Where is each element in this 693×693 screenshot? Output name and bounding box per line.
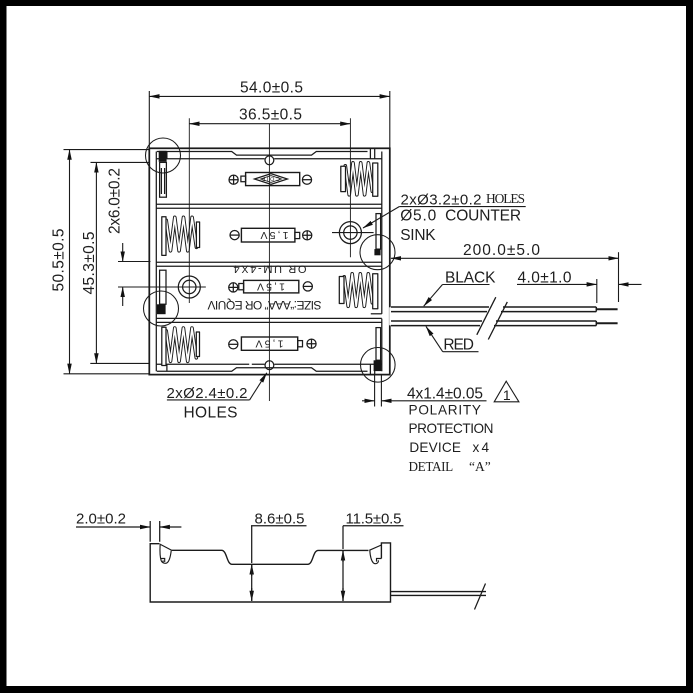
plate slot2 right <box>376 214 381 250</box>
leader BLACK <box>443 284 490 286</box>
svg-text:2x6.0±0.2: 2x6.0±0.2 <box>107 168 124 234</box>
countersink hole right crosshair <box>332 232 374 234</box>
countersink hole left inner <box>183 280 196 293</box>
BODY-OUTLINE <box>149 148 389 374</box>
svg-text:HOLES: HOLES <box>486 191 525 206</box>
bottom wall inner profile <box>157 368 368 372</box>
svg-text:50.5±0.5: 50.5±0.5 <box>51 229 68 292</box>
section wire <box>391 592 487 596</box>
CONTACT-PLATES <box>160 162 381 360</box>
svg-text:54.0±0.5: 54.0±0.5 <box>240 79 303 96</box>
spring slot4 free bar <box>196 332 199 357</box>
countersink hole right outer <box>339 222 361 244</box>
plate slot4 right <box>376 328 381 361</box>
svg-text:SINK: SINK <box>400 227 436 244</box>
wire break slash 1 <box>477 297 496 335</box>
countersink hole left crosshair <box>173 286 206 288</box>
svg-text:8.6±0.5: 8.6±0.5 <box>255 510 305 527</box>
battery B1 minus terminal <box>302 175 311 184</box>
svg-text:200.0±5.0: 200.0±5.0 <box>463 242 540 259</box>
spring slot1 right zigzag <box>345 163 372 195</box>
SECTION-VIEW <box>76 521 486 610</box>
body outer rectangle <box>149 148 389 374</box>
dim 2x6.0 extension lines <box>118 262 206 288</box>
divider slot3/4 <box>156 318 381 322</box>
spring slot1 wall bar <box>373 163 378 196</box>
detail circle A1 <box>146 138 181 173</box>
top wall inner profile <box>157 152 368 156</box>
svg-text:DEVICE: DEVICE <box>409 440 461 455</box>
svg-text:BLACK: BLACK <box>445 270 496 287</box>
dim 11.5 underline and line <box>343 526 404 549</box>
SPRINGS <box>162 163 378 366</box>
top center circle <box>265 156 274 165</box>
dim 4x1.4 extension lines <box>375 375 382 407</box>
battery B1 nub <box>241 176 246 182</box>
detail circle A2 <box>360 235 395 270</box>
svg-text:POLARITY: POLARITY <box>409 403 482 418</box>
plate slot3 left <box>160 270 166 304</box>
countersink hole left outer <box>178 276 200 298</box>
dim 200.0 extension line right <box>618 252 620 302</box>
bottom center circle <box>265 361 274 370</box>
dim 2x6.0 arrows <box>122 243 124 262</box>
battery B3 plus terminal <box>229 283 238 292</box>
BATTERIES <box>229 173 316 351</box>
svg-text:PROTECTION: PROTECTION <box>409 421 494 436</box>
section right clip <box>369 545 381 564</box>
svg-text:COUNTER: COUNTER <box>445 207 521 224</box>
polarity protection square slot1 left <box>159 151 167 162</box>
spring slot2 wall bar <box>162 217 166 256</box>
DIMENSIONS <box>64 91 642 407</box>
spring slot4 zigzag <box>166 328 196 361</box>
spring slot2 free bar <box>196 222 199 248</box>
wire break slash 2 <box>488 302 507 340</box>
battery B1 plus terminal <box>229 175 238 184</box>
right inner wall <box>381 152 383 372</box>
leader RED <box>443 351 479 353</box>
dim 45.3 extension lines <box>90 162 149 363</box>
bottom inner wall line <box>157 363 382 365</box>
dim 4.0 line right with arrow <box>619 283 642 285</box>
section outline <box>172 550 369 564</box>
svg-text:OR UM-4X4: OR UM-4X4 <box>234 263 307 275</box>
dim 8.6 underline and line <box>251 526 307 563</box>
svg-text:RED: RED <box>443 336 474 353</box>
polarity protection square slot3 left <box>157 304 166 314</box>
svg-text:SIZE:“AAA” OR EQUIV: SIZE:“AAA” OR EQUIV <box>208 298 322 312</box>
battery B4 outline <box>241 337 297 350</box>
red wire insulation <box>391 321 596 326</box>
battery B3 minus terminal <box>303 282 312 291</box>
detail circle A3 <box>144 291 179 326</box>
svg-text:45.3±0.5: 45.3±0.5 <box>81 232 98 295</box>
spring slot2 zigzag <box>166 217 196 251</box>
section left clip <box>159 544 171 564</box>
bottom right latch slot <box>167 364 375 374</box>
leader 2xO3.2 holes <box>399 206 526 208</box>
battery B4 minus terminal <box>229 340 238 349</box>
spring slot4 wall bar <box>162 327 166 365</box>
dim 200.0 line <box>391 257 619 259</box>
battery B1 diamond logo <box>255 174 288 185</box>
body vertical center line <box>268 124 270 401</box>
dim 2.0 arrows <box>76 526 150 528</box>
DETAIL-CIRCLES <box>144 138 396 382</box>
WIRES <box>389 297 617 339</box>
svg-text:COIF: COIF <box>261 175 280 181</box>
spring slot3 wall bar <box>373 274 378 309</box>
svg-text:1,5V: 1,5V <box>261 229 289 241</box>
warning triangle 1 <box>494 381 519 402</box>
spring slot3 zigzag <box>344 274 372 307</box>
dim 4.0 line left with arrow <box>517 283 597 285</box>
polarity protection square slot2 right <box>374 249 380 255</box>
svg-text:1,5V: 1,5V <box>256 337 284 349</box>
svg-text:1: 1 <box>503 387 511 403</box>
svg-text:2.0±0.2: 2.0±0.2 <box>76 510 126 527</box>
polarity protection square slot4 right <box>374 360 382 371</box>
countersink hole right inner <box>344 226 357 239</box>
battery B1 outline <box>246 173 300 186</box>
svg-text:11.5±0.5: 11.5±0.5 <box>346 510 402 527</box>
dim 4.0 extension line <box>596 279 598 303</box>
svg-text:4x1.4±0.05: 4x1.4±0.05 <box>407 386 483 403</box>
section wire break slash <box>475 584 486 610</box>
black wire stripped conductor <box>596 308 617 310</box>
plate slot1 left <box>160 162 167 197</box>
dim 36.5 extension/center lines <box>189 118 350 303</box>
battery B2 nub <box>295 232 300 238</box>
svg-text:2xØ2.4±0.2: 2xØ2.4±0.2 <box>167 385 248 402</box>
battery B3 nub <box>239 284 244 290</box>
dim 50.5 extension lines <box>64 150 149 374</box>
dim 36.5 line <box>189 123 350 125</box>
battery B2 plus terminal <box>303 231 312 240</box>
leader 2xO2.4 holes <box>167 399 250 401</box>
svg-text:4.0±1.0: 4.0±1.0 <box>518 269 572 286</box>
spring slot3 free bar <box>339 277 344 304</box>
dim 45.3 line <box>95 162 97 363</box>
wire port ledge <box>371 313 382 315</box>
svg-text:Ø5.0: Ø5.0 <box>400 207 436 224</box>
battery B2 outline <box>241 228 295 242</box>
spring slot1 free bar <box>341 166 346 191</box>
svg-text:HOLES: HOLES <box>184 404 238 421</box>
dim 2.0 extension ticks <box>150 521 160 542</box>
top inner wall line <box>157 158 382 160</box>
dim 54.0 line <box>149 95 389 97</box>
svg-text:DETAIL: DETAIL <box>409 459 454 474</box>
dim 50.5 line <box>69 150 71 374</box>
dim 54.0 extension lines <box>149 91 389 148</box>
HOLES <box>173 222 374 298</box>
divider slot1/2 <box>156 204 381 208</box>
divider slot2/3 <box>156 262 381 266</box>
svg-text:“A”: “A” <box>469 459 491 474</box>
POLARITY-SQUARES <box>157 151 381 371</box>
svg-text:x4: x4 <box>473 440 490 455</box>
svg-text:36.5±0.5: 36.5±0.5 <box>239 107 302 124</box>
svg-text:2xØ3.2±0.2: 2xØ3.2±0.2 <box>401 191 482 208</box>
red wire stripped conductor <box>596 322 617 324</box>
dim 4x1.4 arrows and underline <box>362 400 375 402</box>
black wire insulation <box>391 307 596 312</box>
battery B3 outline <box>244 280 299 293</box>
battery B2 minus terminal <box>230 231 239 240</box>
top right latch slot <box>167 149 375 159</box>
battery B4 plus terminal <box>307 339 316 348</box>
wall opening for wires <box>389 307 391 325</box>
battery B4 nub <box>298 341 303 347</box>
detail circle A4 <box>361 348 396 383</box>
left inner wall <box>155 152 157 372</box>
svg-text:1,5V: 1,5V <box>257 280 285 292</box>
